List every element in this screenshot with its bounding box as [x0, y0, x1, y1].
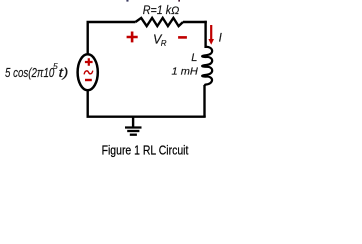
ground: [125, 117, 142, 135]
wire right vertical above inductor: [204, 21, 206, 48]
svg-text:R: R: [161, 39, 167, 48]
inductor label L: [191, 52, 197, 64]
voltage source minus sign: [85, 79, 92, 81]
caption Figure 1 RL Circuit: [102, 144, 189, 158]
wire top right segment: [183, 21, 207, 23]
svg-text:5 cos(2π10: 5 cos(2π10: [5, 66, 54, 80]
voltage source sine tilde: [84, 71, 93, 75]
svg-text:5: 5: [53, 61, 58, 71]
stray mark top left (cropped text remnant): [126, 0, 128, 2]
svg-text:L: L: [191, 52, 197, 64]
voltage source V1 ellipse: [78, 54, 98, 90]
voltage source plus sign: [85, 58, 93, 66]
current label I: [219, 33, 223, 45]
inductor L1 coil: [202, 47, 212, 86]
svg-text:1 mH: 1 mH: [172, 66, 199, 78]
wire left vertical below source: [86, 91, 88, 118]
stray mark top right (cropped text remnant): [178, 0, 180, 2]
current arrow I (red): [208, 25, 214, 45]
source value label 5 cos(2pi10^5 t): [5, 61, 69, 80]
V_R label: [153, 33, 167, 48]
svg-text:R=1 kΩ: R=1 kΩ: [143, 5, 180, 17]
polarity plus sign (red): [127, 32, 138, 43]
svg-text:t): t): [59, 66, 69, 80]
inductor value label 1 mH: [172, 66, 199, 78]
wire left vertical (source branch): [86, 22, 88, 54]
resistor R zigzag: [136, 18, 184, 26]
wire right vertical below inductor: [203, 85, 205, 117]
svg-text:Figure 1 RL Circuit: Figure 1 RL Circuit: [102, 144, 189, 158]
wire top left segment: [87, 21, 136, 23]
wire bottom: [87, 115, 206, 117]
polarity minus sign (red): [178, 36, 187, 39]
resistor value label R=1 kOhm: [143, 5, 180, 17]
